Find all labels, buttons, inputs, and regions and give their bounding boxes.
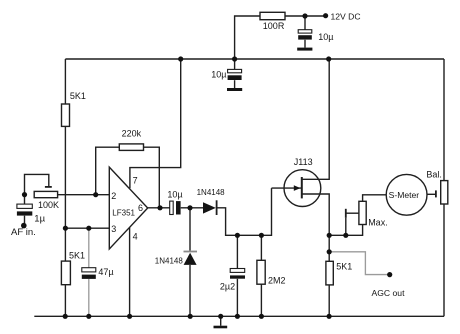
ground symbol bar bottom	[214, 326, 228, 329]
node pin2 / feedback	[93, 192, 98, 197]
node ground rail shunt diode	[188, 314, 193, 319]
capacitor C1 10u top: hollow plate	[298, 30, 312, 33]
capacitor C4 47u: solid plate	[82, 275, 96, 279]
node source / 5K1	[327, 233, 332, 238]
op-amp U1 LF351	[109, 167, 147, 249]
terminal AGC out	[387, 272, 392, 277]
wire Max wiper arm	[346, 212, 359, 214]
terminal 12V DC	[323, 13, 328, 18]
wire 5K1 to ground rail	[328, 285, 330, 316]
ground bar below C2	[227, 88, 242, 91]
meter M1 S-Meter circle	[386, 174, 427, 215]
node gate line / 2M2	[259, 233, 264, 238]
node ground rail agc 5K1	[327, 314, 332, 319]
resistor R2 5K1 upper	[62, 104, 70, 126]
ground bar below C1	[297, 48, 312, 51]
wiper contact bar of 100K	[45, 186, 52, 188]
wire ground symbol stub	[220, 316, 222, 325]
node ground rail 5K1	[63, 314, 68, 319]
wire 47u branch lower (gray)	[88, 279, 90, 316]
wire right rail lower	[443, 204, 445, 316]
node ground rail 2M2	[259, 314, 264, 319]
wire 100K wiper loop	[25, 174, 49, 194]
svg-text:AF in.: AF in.	[11, 227, 36, 238]
node ground rail ground symbol	[218, 314, 223, 319]
node pin3 / bias divider	[63, 226, 68, 231]
capacitor C5 10u series: hollow plate	[170, 201, 174, 214]
node ground rail 2u2	[235, 314, 240, 319]
svg-text:Bal.: Bal.	[426, 169, 442, 179]
svg-text:AGC out: AGC out	[372, 288, 406, 298]
node AGC tap	[327, 249, 332, 254]
wire 100R to 12V terminal	[285, 15, 326, 17]
cathode bar of series diode D1	[216, 200, 218, 215]
wire shunt diode upper stub	[189, 208, 191, 251]
svg-text:100R: 100R	[263, 21, 285, 31]
wire top cap positive stub	[304, 16, 306, 30]
diode D1 1N4148 series triangle	[203, 202, 216, 213]
wire top cap to ground bar	[304, 40, 306, 48]
svg-text:10µ: 10µ	[318, 32, 333, 42]
svg-text:5K1: 5K1	[70, 91, 86, 101]
svg-text:10µ: 10µ	[167, 190, 182, 200]
wire second cap positive stub	[234, 59, 236, 69]
wire 100K to pin 2	[58, 194, 110, 196]
svg-text:1N4148: 1N4148	[197, 188, 226, 197]
svg-text:1µ: 1µ	[34, 214, 45, 225]
wire pin 4 to ground rail	[129, 228, 131, 317]
node ground rail 47u	[86, 314, 91, 319]
capacitor C3 1u input: hollow plate	[17, 204, 32, 208]
svg-text:100K: 100K	[38, 200, 59, 210]
svg-text:LF351: LF351	[112, 209, 135, 218]
wire left column upper	[64, 59, 66, 104]
svg-text:2µ2: 2µ2	[220, 281, 235, 291]
resistor R7 5K1 agc	[326, 261, 333, 285]
resistor 100K potentiometer	[34, 191, 57, 197]
wiper contact bar of Max pot	[345, 209, 347, 218]
svg-text:47µ: 47µ	[98, 267, 113, 277]
svg-text:S-Meter: S-Meter	[389, 190, 420, 200]
gate arrow of J113	[294, 185, 301, 191]
wire 2u2 branch upper	[236, 235, 238, 268]
node gate line / 2u2	[235, 233, 240, 238]
svg-text:10µ: 10µ	[211, 69, 226, 79]
node rail C2	[232, 56, 237, 61]
wire feedback left drop	[96, 147, 120, 195]
capacitor C6 2u2: hollow plate	[230, 269, 245, 273]
svg-text:2: 2	[111, 191, 116, 201]
wire diode to JFET gate riser	[217, 188, 272, 235]
terminal AF in	[21, 223, 27, 229]
capacitor C2 10u rail: solid plate	[228, 75, 242, 80]
svg-text:2M2: 2M2	[268, 276, 286, 286]
svg-text:12V DC: 12V DC	[331, 12, 361, 22]
svg-text:5K1: 5K1	[336, 261, 352, 271]
wire 47u branch upper (gray)	[88, 228, 90, 268]
wire pin 7 supply	[130, 59, 181, 188]
svg-text:4: 4	[133, 232, 138, 242]
node pin3 / 47u	[86, 226, 91, 231]
wire JFET gate lead	[272, 187, 302, 189]
svg-text:J113: J113	[294, 157, 313, 167]
wire supply riser and 100R left lead	[235, 16, 260, 59]
capacitor C3 1u input: solid plate	[17, 211, 32, 215]
wire series cap to diode	[181, 207, 203, 209]
wire AGC out tap (gray)	[329, 252, 390, 275]
node junction 100R / C1	[302, 13, 307, 18]
capacitor C6 2u2: solid plate	[230, 275, 245, 278]
wire main +V rail	[65, 58, 444, 60]
resistor R9 Bal potentiometer	[441, 181, 448, 204]
capacitor C1 10u top: solid plate	[298, 35, 312, 39]
resistor R5 5K1 lower-left	[61, 261, 70, 285]
capacitor C2 10u rail: hollow plate	[228, 69, 242, 72]
node input / 100K	[22, 192, 27, 197]
wire source node to Max pot bottom	[329, 225, 362, 236]
svg-text:220k: 220k	[122, 129, 142, 139]
svg-text:3: 3	[111, 224, 116, 234]
resistor R6 2M2	[257, 260, 265, 284]
cathode bar of shunt diode D2 (gray)	[184, 251, 198, 253]
wire right rail upper	[443, 59, 445, 181]
wire Max wiper to source node	[345, 218, 347, 236]
wire 1u cap to AF terminal	[24, 216, 26, 224]
capacitor C4 47u: hollow plate	[82, 268, 96, 272]
wire shunt diode lower stub	[189, 265, 191, 316]
wire Max pot top to S-Meter	[363, 195, 387, 202]
node ground rail pin4	[127, 314, 132, 319]
node rail pin7	[178, 56, 183, 61]
resistor 220k feedback	[119, 144, 143, 151]
wire JFET drain to rail	[302, 59, 330, 179]
node rail drain	[326, 56, 331, 61]
svg-text:1N4148: 1N4148	[155, 257, 184, 266]
node diode / shunt diode	[187, 205, 192, 210]
channel bar of J113	[301, 177, 303, 198]
wire left column middle	[64, 126, 66, 261]
wire second cap to ground bar	[234, 80, 236, 88]
wire left column lower	[64, 285, 66, 317]
resistor R8 Max potentiometer	[359, 201, 366, 224]
wire 2M2 branch upper	[260, 235, 262, 260]
wire 2M2 branch lower	[260, 284, 262, 316]
transistor Q1 J113 circle	[284, 170, 321, 207]
diode D2 1N4148 shunt triangle	[184, 253, 197, 265]
capacitor C5 10u series: solid plate	[176, 201, 181, 214]
svg-text:5K1: 5K1	[69, 250, 85, 260]
svg-text:Max.: Max.	[368, 218, 388, 228]
wire input node to 1u cap	[24, 195, 26, 204]
wire JFET source down	[302, 194, 330, 235]
wire ground bottom rail	[34, 315, 444, 317]
resistor 100R	[260, 12, 285, 19]
wire source node to 5K1	[328, 235, 330, 261]
wire 2u2 branch lower	[236, 279, 238, 317]
wire S-Meter to Bal wiper	[427, 193, 436, 195]
svg-text:7: 7	[133, 175, 138, 185]
node output pin6	[157, 205, 162, 210]
svg-text:6: 6	[138, 203, 143, 213]
wire feedback right drop to output	[144, 147, 160, 208]
wiper contact bar of Bal pot	[435, 190, 437, 197]
node source / Max wiper	[343, 233, 348, 238]
wire pin 3	[65, 227, 109, 229]
wire op-amp output	[148, 207, 170, 209]
